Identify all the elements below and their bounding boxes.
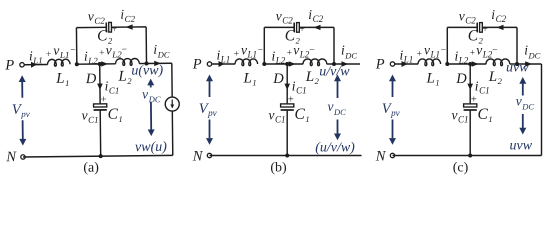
inductor L1 (c) xyxy=(418,59,441,66)
svg-text:(b): (b) xyxy=(270,161,287,176)
node D branch (c) xyxy=(468,62,472,66)
svg-text:L2: L2 xyxy=(305,69,320,86)
inductor L2 (b) xyxy=(303,59,327,66)
svg-text:P: P xyxy=(4,57,14,73)
capacitor C1 (c) xyxy=(464,104,477,107)
wire right edge (c) xyxy=(541,64,543,156)
capacitor C2 (b) xyxy=(293,23,295,33)
current arrow i_L1 (b) xyxy=(219,61,225,67)
node D branch (b) xyxy=(285,62,289,66)
wire top rail left of C2 (b) xyxy=(264,26,294,28)
wire L2 to right node (c) xyxy=(510,63,517,65)
diode D arrow (b) xyxy=(284,84,290,90)
svg-text:+: + xyxy=(288,95,294,106)
svg-text:(u/v/w): (u/v/w) xyxy=(315,141,355,156)
wire right edge top (a) xyxy=(171,63,173,97)
svg-text:iC2: iC2 xyxy=(120,7,135,24)
svg-text:u(vw): u(vw) xyxy=(131,63,163,78)
current arrow i_DC (a) xyxy=(154,61,161,66)
svg-text:+: + xyxy=(471,95,477,106)
converter circuit (c) xyxy=(375,7,542,176)
svg-text:iL2: iL2 xyxy=(84,48,98,65)
current arrow i_C2 (c) xyxy=(497,25,504,30)
bottom rail (a) xyxy=(23,155,173,157)
wire top rail right of C2 (b) xyxy=(299,26,334,28)
terminal P (b) xyxy=(207,62,211,66)
svg-text:vC2: vC2 xyxy=(88,8,106,25)
svg-text:+: + xyxy=(234,50,239,60)
svg-text:N: N xyxy=(192,148,204,164)
svg-text:vDC: vDC xyxy=(328,99,347,117)
wire L2 node to open end (b) xyxy=(334,63,360,65)
svg-text:−: − xyxy=(70,46,75,56)
node C1/bottom rail (b) xyxy=(285,154,289,158)
wire L2 to right node (a) xyxy=(139,62,146,64)
svg-text:D: D xyxy=(272,71,284,87)
bottom rail (b) xyxy=(210,155,362,157)
diode D arrow (a) xyxy=(97,84,103,90)
svg-text:Vpv: Vpv xyxy=(382,101,400,118)
current arrow i_L1 (a) xyxy=(31,62,37,68)
v_DC arrow down (a) xyxy=(150,102,152,130)
svg-text:iDC: iDC xyxy=(153,42,170,60)
svg-text:iC1: iC1 xyxy=(104,78,119,95)
svg-text:vL2: vL2 xyxy=(106,42,123,59)
svg-text:vDC: vDC xyxy=(516,94,535,112)
node L2/C2 junction (a) xyxy=(144,61,148,65)
svg-text:+: + xyxy=(470,49,475,59)
terminal P (a) xyxy=(20,63,24,67)
wire L1 node to D node (a) xyxy=(77,63,100,65)
svg-text:−: − xyxy=(122,45,127,55)
capacitor C1 (b) xyxy=(281,104,294,107)
svg-text:−: − xyxy=(309,46,314,56)
node L2/C2 junction (b) xyxy=(332,62,336,66)
svg-text:vL1: vL1 xyxy=(241,42,257,59)
wire C1 to bottom rail (c) xyxy=(469,110,471,156)
V_pv arrow down (a) xyxy=(22,120,24,139)
wire right riser of C2 loop (b) xyxy=(333,27,335,64)
svg-text:L2: L2 xyxy=(117,69,132,86)
capacitor C2 (a) xyxy=(105,22,107,32)
wire C1 to bottom rail (b) xyxy=(286,110,288,156)
diode D wire (c) xyxy=(469,64,471,103)
svg-text:uvw: uvw xyxy=(506,61,529,76)
svg-text:L1: L1 xyxy=(55,71,69,88)
svg-text:iC1: iC1 xyxy=(475,79,490,96)
inductor L2 (c) xyxy=(486,59,510,66)
wire riser to C2 rail (c) xyxy=(446,27,448,64)
wire C1 to bottom rail (a) xyxy=(99,110,101,156)
current arrow i_C2 (a) xyxy=(126,24,133,29)
terminal N (b) xyxy=(207,153,211,157)
node L1/C2 junction (c) xyxy=(445,62,449,66)
wire P to L1 (a) xyxy=(24,64,47,66)
svg-text:Vpv: Vpv xyxy=(12,102,30,119)
wire L2 node to right edge (a) xyxy=(147,62,172,64)
svg-text:−: − xyxy=(258,46,263,56)
bottom rail (c) xyxy=(393,155,542,157)
svg-text:D: D xyxy=(85,71,97,87)
current arrow i_C2 (b) xyxy=(314,25,321,30)
svg-text:P: P xyxy=(192,57,202,73)
svg-text:vDC: vDC xyxy=(142,86,161,104)
wire right riser of C2 loop (a) xyxy=(145,27,147,64)
wire riser to C2 rail (b) xyxy=(263,27,265,64)
svg-text:vw(u): vw(u) xyxy=(135,140,167,155)
v_DC arrow up (c) xyxy=(522,84,524,96)
wire top rail right of C2 (a) xyxy=(112,26,147,28)
capacitor C2 (c) xyxy=(476,23,478,33)
inductor L2 (a) xyxy=(115,58,139,65)
node C1/bottom rail (a) xyxy=(99,154,103,158)
wire top rail left of C2 (c) xyxy=(447,26,477,28)
svg-text:u/v/w: u/v/w xyxy=(319,65,350,80)
svg-text:iL1: iL1 xyxy=(29,48,43,65)
svg-text:vL2: vL2 xyxy=(476,43,493,60)
svg-text:+: + xyxy=(101,94,107,105)
V_pv arrow up (c) xyxy=(392,80,394,97)
svg-text:iL2: iL2 xyxy=(272,49,286,66)
svg-text:L1: L1 xyxy=(426,71,440,88)
node D branch (a) xyxy=(98,62,102,66)
wire L1 node to D node (b) xyxy=(264,63,287,65)
svg-text:N: N xyxy=(5,149,17,165)
svg-text:iC2: iC2 xyxy=(491,7,506,24)
wire top rail left of C2 (a) xyxy=(76,26,106,28)
svg-text:−: − xyxy=(441,46,446,56)
current arrow i_DC (b) xyxy=(342,61,349,66)
svg-text:P: P xyxy=(375,57,385,73)
current arrow i_L1 (c) xyxy=(402,61,408,67)
svg-text:vL1: vL1 xyxy=(53,43,69,60)
terminal N (c) xyxy=(390,153,394,157)
svg-text:iC2: iC2 xyxy=(308,7,323,24)
svg-text:iDC: iDC xyxy=(524,43,540,61)
svg-text:+: + xyxy=(287,49,292,59)
svg-text:vC2: vC2 xyxy=(459,9,477,26)
wire L2 to right node (b) xyxy=(327,63,334,65)
svg-text:vL2: vL2 xyxy=(293,43,310,60)
wire right riser of C2 loop (c) xyxy=(516,27,518,64)
current arrow i_DC (c) xyxy=(525,61,532,66)
current source arrow (a) xyxy=(171,100,173,106)
diode D wire (b) xyxy=(286,64,288,103)
svg-text:−: − xyxy=(492,46,497,56)
svg-text:vL1: vL1 xyxy=(424,42,440,59)
wire P to L1 (b) xyxy=(212,63,236,65)
capacitor C1 (a) xyxy=(94,104,107,107)
current arrow i_L2 (c) xyxy=(472,61,479,66)
wire right edge bottom (a) xyxy=(171,111,173,155)
inductor L1 (b) xyxy=(235,59,258,66)
v_DC arrow down (c) xyxy=(522,114,524,128)
svg-text:(c): (c) xyxy=(453,161,469,176)
svg-text:(a): (a) xyxy=(83,160,99,175)
wire top rail right of C2 (c) xyxy=(482,26,517,28)
svg-text:iL1: iL1 xyxy=(217,48,231,65)
svg-text:uvw: uvw xyxy=(510,139,533,154)
wire D node to L2 (c) xyxy=(470,63,486,65)
svg-text:+: + xyxy=(417,50,422,60)
V_pv arrow down (c) xyxy=(392,120,394,139)
svg-text:C1: C1 xyxy=(107,106,122,124)
svg-text:C1: C1 xyxy=(478,106,493,124)
svg-text:vC2: vC2 xyxy=(276,9,294,26)
svg-text:+: + xyxy=(99,48,104,58)
svg-text:C1: C1 xyxy=(295,106,310,124)
wire P to L1 (c) xyxy=(395,63,419,65)
node L1/C2 junction (a) xyxy=(75,62,79,66)
svg-text:iL1: iL1 xyxy=(400,48,414,65)
terminal P (c) xyxy=(390,62,394,66)
wire D node to L2 (b) xyxy=(287,63,303,65)
svg-text:D: D xyxy=(455,71,467,87)
V_pv arrow up (a) xyxy=(21,81,23,98)
svg-text:iL2: iL2 xyxy=(455,49,469,66)
wire riser to C2 rail (a) xyxy=(75,28,77,65)
converter circuit (b) xyxy=(192,7,362,176)
v_DC arrow up (b) xyxy=(337,81,339,98)
converter circuit (a) xyxy=(4,6,180,176)
V_pv arrow down (b) xyxy=(209,120,211,139)
wire D node to L2 (a) xyxy=(100,63,116,65)
v_DC arrow up (a) xyxy=(150,85,152,87)
svg-text:N: N xyxy=(375,148,387,164)
node L1/C2 junction (b) xyxy=(262,62,266,66)
svg-text:Vpv: Vpv xyxy=(199,101,217,118)
terminal N (a) xyxy=(21,155,25,159)
diode D arrow (c) xyxy=(467,84,473,90)
current arrow i_L2 (a) xyxy=(101,61,108,66)
inductor L1 (a) xyxy=(47,59,70,66)
node C1/bottom rail (c) xyxy=(468,154,472,158)
V_pv arrow up (b) xyxy=(209,80,211,97)
current arrow i_L2 (b) xyxy=(289,61,296,66)
current source (a) xyxy=(165,97,179,111)
wire L2 node to right edge (c) xyxy=(517,63,542,65)
svg-text:L1: L1 xyxy=(243,71,257,88)
wire L1 node to D node (c) xyxy=(447,63,470,65)
svg-text:iC1: iC1 xyxy=(292,79,307,96)
v_DC arrow down (b) xyxy=(337,120,339,134)
diode D wire (a) xyxy=(99,64,101,103)
node L2/C2 junction (c) xyxy=(515,62,519,66)
svg-text:+: + xyxy=(46,50,51,60)
svg-text:iDC: iDC xyxy=(341,43,357,61)
svg-text:L2: L2 xyxy=(488,69,503,86)
